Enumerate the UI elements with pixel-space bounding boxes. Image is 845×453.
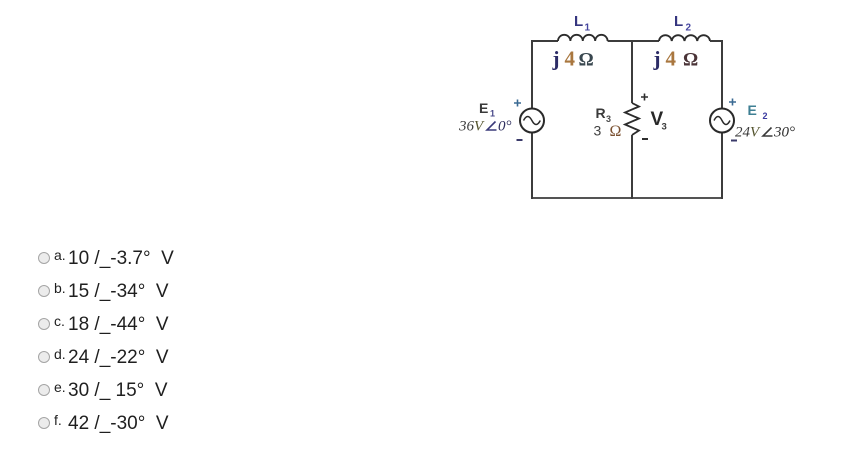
svg-text:Ω: Ω bbox=[610, 123, 622, 140]
wire: left rail upper bbox=[531, 40, 533, 109]
svg-text:V: V bbox=[474, 119, 485, 135]
angle symbol for E1 bbox=[487, 122, 497, 131]
resistor plus sign bbox=[641, 94, 648, 101]
wire: top segment from middle node to L2 bbox=[632, 40, 659, 42]
inductor L1 coil bbox=[558, 35, 608, 41]
wire: middle rail upper bbox=[631, 40, 633, 103]
svg-text:1: 1 bbox=[490, 109, 495, 119]
svg-text:24: 24 bbox=[735, 125, 751, 141]
answer option e bbox=[36, 380, 38, 402]
answer option d bbox=[36, 347, 38, 369]
svg-text:j: j bbox=[552, 47, 560, 71]
wire: top-left segment from left rail to L1 bbox=[532, 40, 558, 42]
angle symbol for E2 bbox=[763, 128, 773, 137]
svg-text:4: 4 bbox=[666, 47, 677, 71]
svg-text:3: 3 bbox=[662, 122, 667, 133]
answer option c bbox=[36, 314, 38, 336]
resistor R3 zigzag bbox=[625, 103, 639, 135]
wire: bottom rail bbox=[532, 197, 722, 199]
wire: top segment from L1 to middle node bbox=[608, 40, 632, 42]
E1 minus sign bbox=[517, 139, 523, 141]
resistor minus sign bbox=[642, 138, 648, 140]
svg-text:R: R bbox=[596, 105, 606, 121]
svg-text:0°: 0° bbox=[498, 119, 512, 135]
answer option f bbox=[36, 413, 38, 435]
wire: top-right segment from L2 to right rail bbox=[710, 40, 722, 42]
voltage source E2 circle bbox=[710, 109, 734, 133]
svg-text:V: V bbox=[750, 125, 761, 141]
answer option b bbox=[36, 281, 38, 303]
voltage source E1 circle bbox=[520, 109, 544, 133]
svg-text:2: 2 bbox=[686, 23, 692, 34]
svg-text:E: E bbox=[748, 102, 757, 118]
svg-text:30°: 30° bbox=[773, 125, 795, 141]
voltage source E2 sine bbox=[714, 117, 730, 125]
svg-text:3: 3 bbox=[594, 123, 602, 139]
svg-text:4: 4 bbox=[565, 47, 576, 71]
E2 plus sign bbox=[729, 99, 736, 106]
answer option a bbox=[36, 248, 38, 270]
svg-text:E: E bbox=[479, 100, 488, 116]
svg-text:L: L bbox=[574, 13, 583, 30]
E2 minus sign bbox=[731, 140, 737, 142]
voltage source E1 sine bbox=[524, 117, 541, 125]
svg-text:j: j bbox=[653, 47, 661, 71]
svg-text:Ω: Ω bbox=[579, 50, 594, 71]
svg-text:36: 36 bbox=[458, 119, 475, 135]
svg-text:2: 2 bbox=[763, 111, 768, 121]
wire: left rail lower bbox=[531, 132, 533, 199]
svg-text:1: 1 bbox=[585, 23, 591, 34]
wire: middle rail lower bbox=[631, 135, 633, 199]
svg-text:L: L bbox=[674, 13, 683, 30]
E1 plus sign bbox=[514, 100, 521, 107]
inductor L2 coil bbox=[659, 35, 710, 41]
wire: right rail upper bbox=[721, 40, 723, 108]
svg-text:Ω: Ω bbox=[683, 50, 698, 71]
wire: right rail lower bbox=[721, 132, 723, 199]
